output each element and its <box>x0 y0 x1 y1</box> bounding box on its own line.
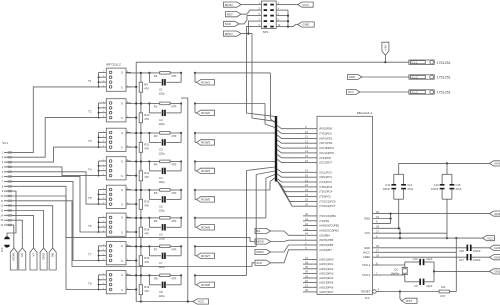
svg-text:47uF: 47uF <box>407 187 413 191</box>
svg-text:R8: R8 <box>154 276 158 280</box>
svg-text:SV1: SV1 <box>2 141 8 145</box>
svg-text:(ADC1)PA1: (ADC1)PA1 <box>319 262 334 266</box>
svg-text:C12: C12 <box>385 183 390 187</box>
svg-text:SCK: SCK <box>225 22 232 26</box>
svg-text:120p: 120p <box>159 122 166 126</box>
flag ROW7 <box>197 253 215 258</box>
svg-text:(RXD)PD0: (RXD)PD0 <box>319 127 332 131</box>
svg-text:AREF: AREF <box>363 255 371 259</box>
svg-text:T1: T1 <box>88 79 92 83</box>
wire SV1 pin 7 to T7 <box>12 181 99 260</box>
svg-text:1751251: 1751251 <box>436 91 450 95</box>
wire bus to PC pin <box>277 181 303 202</box>
IC IC1 MEGA16-A <box>303 111 400 300</box>
svg-text:47K: 47K <box>144 87 149 91</box>
resistor R8 47R <box>149 274 170 277</box>
svg-text:XTAL1: XTAL1 <box>362 263 371 267</box>
wire SV1 pin 3 to T3 <box>12 147 99 162</box>
svg-text:C14: C14 <box>407 183 412 187</box>
wire T2 source to +5V bus <box>126 117 137 119</box>
wire ROW4 net to MCU bus <box>195 161 275 163</box>
svg-text:R4: R4 <box>154 162 158 166</box>
wire SV1 pin 4 to T4 <box>12 167 99 176</box>
wire T3 source to +5V bus <box>126 146 137 148</box>
capacitor C18 100nF (GND pin row) <box>382 245 490 253</box>
flag SCK (SPI) <box>255 250 303 266</box>
wire T5 gate line <box>126 189 196 191</box>
svg-text:ROW5: ROW5 <box>201 198 210 202</box>
capacitor C2 120p <box>149 104 181 126</box>
svg-text:GND: GND <box>494 255 500 259</box>
flag VCC (ISP header pin 2) <box>286 2 314 7</box>
flag GND (C18) <box>490 245 500 250</box>
svg-text:GND: GND <box>494 270 500 274</box>
svg-text:RESET: RESET <box>361 290 370 294</box>
wire SV1 pin 6 to T6 <box>12 177 99 232</box>
svg-text:G: G <box>121 216 123 220</box>
capacitor C5 120p <box>149 190 181 212</box>
svg-text:47K: 47K <box>144 232 149 236</box>
flag GND (ISP header grounds) <box>298 22 315 27</box>
svg-text:47K: 47K <box>144 175 149 179</box>
wire to ROW2 flag <box>195 104 197 113</box>
svg-text:LA: LA <box>31 253 35 257</box>
resistor R3 47R <box>149 132 170 135</box>
svg-text:XTAL2: XTAL2 <box>362 273 371 277</box>
svg-text:GND: GND <box>494 246 500 250</box>
svg-text:GND: GND <box>41 253 45 261</box>
wire R1 to node <box>170 72 181 74</box>
svg-text:R17: R17 <box>441 294 446 298</box>
wire T7 source to +5V bus <box>126 259 137 261</box>
svg-text:(ADC7)PA7: (ADC7)PA7 <box>319 290 334 294</box>
wire T2 gate line <box>126 102 196 104</box>
flag MOSI (SPI) <box>255 239 303 244</box>
svg-text:AVCC: AVCC <box>363 250 370 254</box>
svg-text:100nF: 100nF <box>473 249 481 253</box>
svg-text:120p: 120p <box>159 208 166 212</box>
svg-text:(T0/XCK)PB0: (T0/XCK)PB0 <box>319 214 336 218</box>
wire XTAL1 net <box>382 262 419 265</box>
wire bus to PD pin <box>277 159 303 162</box>
wire R8 to node <box>170 274 181 276</box>
wire ROW8 net to MCU bus <box>195 167 275 275</box>
svg-text:RST: RST <box>406 299 412 303</box>
svg-text:(SCL)PC0: (SCL)PC0 <box>319 170 332 174</box>
svg-text:120p: 120p <box>159 151 166 155</box>
svg-text:MISO: MISO <box>225 32 234 36</box>
wire R5 to node <box>170 189 181 191</box>
svg-text:(INT0)PD2: (INT0)PD2 <box>319 136 333 140</box>
wire SV1 pin 2 to T2 <box>12 118 99 158</box>
dual MOSFET T6 (IRF7311LZ) <box>88 213 131 236</box>
svg-text:ROW7: ROW7 <box>201 254 210 258</box>
wire SV1 pin 12 to flag <box>12 206 53 248</box>
resistor R4 47R <box>149 160 170 163</box>
svg-text:(ADC2)PA2: (ADC2)PA2 <box>319 267 334 271</box>
resistor R15 47K pull-up <box>139 245 150 276</box>
svg-text:VCC: VCC <box>198 300 205 304</box>
wire T1 gate line <box>126 72 196 74</box>
svg-text:G: G <box>121 273 123 277</box>
svg-text:RST: RST <box>227 12 233 16</box>
svg-text:T2: T2 <box>88 109 92 113</box>
svg-text:(TXD)PD1: (TXD)PD1 <box>319 132 332 136</box>
flag VCC (bottom rail) <box>193 299 209 304</box>
wire R4 to node <box>170 161 181 163</box>
svg-text:(ADC6)PA6: (ADC6)PA6 <box>319 285 334 289</box>
wire T5 source to +5V bus <box>126 203 137 205</box>
flag RD (bottom) <box>49 248 56 270</box>
resistor R1 47R <box>149 72 170 75</box>
flag GND (bottom) <box>40 248 47 270</box>
svg-text:47uF: 47uF <box>456 187 462 191</box>
capacitor C9 22pF <box>414 279 434 289</box>
svg-text:SS: SS <box>20 253 24 257</box>
crystal Q1 16MHz <box>390 265 408 276</box>
svg-text:IRF7311LZ: IRF7311LZ <box>106 63 121 67</box>
wire R6 to node <box>170 217 181 219</box>
svg-text:S: S <box>121 174 123 178</box>
flag ROW6 <box>197 225 215 230</box>
wire bus to PC pin <box>277 181 303 206</box>
flag ROW8 <box>197 282 215 287</box>
svg-text:C18: C18 <box>459 249 464 253</box>
capacitor C10 22pF <box>413 257 434 265</box>
svg-text:GND: GND <box>494 162 500 166</box>
wire ROW5 net to MCU bus <box>195 178 275 190</box>
wire ROW6 net to MCU bus <box>195 175 275 218</box>
svg-text:VCC: VCC <box>487 236 494 240</box>
svg-text:(OC2)PD7: (OC2)PD7 <box>319 161 332 165</box>
svg-text:T8: T8 <box>88 281 92 285</box>
capacitor C4 120p <box>149 162 181 184</box>
svg-text:(T1)PB1: (T1)PB1 <box>319 219 330 223</box>
wire SV1 pin 14 to flag <box>12 215 34 248</box>
wire bus to PD pin <box>277 155 303 158</box>
svg-text:(ICP)PD6: (ICP)PD6 <box>319 156 331 160</box>
wire to ROW1 flag <box>195 73 197 82</box>
svg-text:X1-3: X1-3 <box>411 90 418 94</box>
wire T8 gate line <box>126 274 196 276</box>
wire MISO flag to header pin 7 <box>241 21 252 33</box>
svg-text:MOSI: MOSI <box>256 240 264 244</box>
svg-text:1751251: 1751251 <box>436 61 450 65</box>
wire T8 source to +5V bus <box>126 288 137 290</box>
flag VCC (X1-3) <box>347 90 361 95</box>
resistor R9 47K pull-up <box>139 72 149 105</box>
dual MOSFET T8 (IRF7311LZ) <box>88 271 131 294</box>
svg-text:T5: T5 <box>88 196 92 200</box>
wire to ROW5 flag <box>195 190 197 199</box>
svg-text:S: S <box>121 230 123 234</box>
wire T7 gate line <box>126 245 196 247</box>
wire header pins 4,6,8,10 ground tie <box>286 10 298 28</box>
wire to ROW7 flag <box>195 246 197 255</box>
svg-text:C9: C9 <box>414 284 418 288</box>
flag ROW1 <box>197 80 215 85</box>
svg-text:T4: T4 <box>88 167 92 171</box>
svg-text:47R: 47R <box>171 191 176 195</box>
resistor R12 47K pull-up <box>139 160 150 191</box>
wire MCU GND pins to GND flag <box>390 213 490 224</box>
dual MOSFET T7 (IRF7311LZ) <box>88 242 131 265</box>
svg-text:R6: R6 <box>154 219 158 223</box>
resistor R6 47R <box>149 217 170 220</box>
svg-text:(AIN0/INT2)PB2: (AIN0/INT2)PB2 <box>319 224 339 228</box>
solder jumper SJ1 <box>0 236 10 252</box>
svg-text:47R: 47R <box>171 276 176 280</box>
svg-text:10k: 10k <box>441 285 446 289</box>
connector SV1 (16-pin) <box>0 141 12 227</box>
svg-text:R5: R5 <box>154 191 158 195</box>
svg-text:GND: GND <box>349 75 355 79</box>
wire RESET net <box>382 290 439 292</box>
wire bus to PC pin <box>277 181 303 192</box>
svg-text:(OC1A)PD5: (OC1A)PD5 <box>319 151 334 155</box>
label R5 <box>154 191 177 195</box>
resistor R5 47R <box>149 189 170 192</box>
svg-text:X1-2: X1-2 <box>411 75 418 79</box>
svg-text:VCC: VCC <box>302 3 309 7</box>
wire SV1 pin 1 to T1 <box>12 87 99 152</box>
svg-text:100nF: 100nF <box>473 258 481 262</box>
svg-text:GND: GND <box>302 23 310 27</box>
wire T1 source to +5V bus <box>126 86 137 88</box>
svg-text:G: G <box>121 188 123 192</box>
resistor R13 47K pull-up <box>139 189 150 219</box>
wire SV1 pin 5 to T5 <box>12 172 99 204</box>
svg-text:47R: 47R <box>171 74 176 78</box>
svg-text:G: G <box>121 131 123 135</box>
svg-text:(ADC5)PA5: (ADC5)PA5 <box>319 281 334 285</box>
svg-text:(TDI)PC5: (TDI)PC5 <box>319 195 331 199</box>
svg-text:47K: 47K <box>144 289 149 293</box>
svg-text:100nF: 100nF <box>431 187 439 191</box>
flag GND (crystal) <box>490 269 500 274</box>
svg-text:+5V: +5V <box>384 44 388 51</box>
svg-text:SCK: SCK <box>256 261 262 265</box>
flag GND (MCU gnd pins) <box>490 211 500 216</box>
svg-text:MOSI: MOSI <box>225 3 233 7</box>
wire bus to PD pin <box>277 150 303 153</box>
capacitor C1 120p <box>149 73 181 95</box>
capacitor C8 120p <box>149 275 181 297</box>
svg-text:T7: T7 <box>88 252 92 256</box>
flag MOSI (to ISP header) <box>224 2 242 7</box>
wire left +5V bus vertical <box>135 62 137 301</box>
svg-text:GND: GND <box>494 212 500 216</box>
capacitor C17 100nF (AREF) <box>382 254 490 262</box>
wire bus to PC pin <box>277 181 303 197</box>
svg-text:C17: C17 <box>459 258 464 262</box>
svg-text:120p: 120p <box>159 294 166 298</box>
wire bus to PC pin <box>277 169 303 172</box>
wire T4 source to +5V bus <box>126 175 137 177</box>
svg-text:R1: R1 <box>154 74 158 78</box>
wire T6 gate line <box>126 217 196 219</box>
svg-text:ROW1: ROW1 <box>201 81 210 85</box>
wire ROW1 net to MCU bus <box>195 73 275 123</box>
svg-text:22pF: 22pF <box>426 284 432 288</box>
svg-text:47K: 47K <box>144 204 149 208</box>
svg-text:VCC: VCC <box>364 231 370 235</box>
wire R3 to node <box>170 132 181 134</box>
svg-text:G: G <box>121 159 123 163</box>
svg-text:(OC1B)PD4: (OC1B)PD4 <box>319 146 334 150</box>
label R7 <box>154 247 177 251</box>
wire ROW7 net to MCU bus <box>195 171 275 246</box>
svg-text:(TOSC1)PC6: (TOSC1)PC6 <box>319 199 336 203</box>
svg-text:22pF: 22pF <box>426 257 432 261</box>
wire SV1 pin 10 (MOSI net) across <box>12 196 255 242</box>
svg-text:(SDA)PC1: (SDA)PC1 <box>319 175 332 179</box>
wire bus to PC pin <box>277 174 303 177</box>
svg-text:Q1: Q1 <box>394 268 398 272</box>
wire to ROW3 flag <box>195 133 197 142</box>
svg-text:47K: 47K <box>144 260 149 264</box>
svg-text:S: S <box>121 85 123 89</box>
flag MOSI (bottom) <box>10 248 17 270</box>
svg-text:C10: C10 <box>413 257 418 261</box>
wire T4 gate line <box>126 160 196 162</box>
label R3 <box>154 134 177 138</box>
wire top GND rail (caps) <box>399 162 490 164</box>
wire bus to PD pin <box>277 140 303 143</box>
wire SCK flag to header pin 5, tee down to bus <box>239 16 252 24</box>
svg-text:16MHz: 16MHz <box>390 272 399 276</box>
svg-text:S: S <box>121 116 123 120</box>
flag MISO (SPI) <box>255 245 303 255</box>
svg-text:T3: T3 <box>88 139 92 143</box>
wire bus to PC pin <box>277 179 303 182</box>
svg-text:(SS)PB4: (SS)PB4 <box>319 233 330 237</box>
svg-text:(ADC3)PA3: (ADC3)PA3 <box>319 271 334 275</box>
svg-text:G: G <box>121 71 123 75</box>
capacitor C13 100nF / C15 47uF <box>431 163 462 239</box>
svg-text:R7: R7 <box>154 247 158 251</box>
svg-text:(SCK)PB7: (SCK)PB7 <box>319 248 332 252</box>
wire to ROW6 flag <box>195 218 197 227</box>
flag LA (bottom) <box>30 248 37 270</box>
resistor R2 47R <box>149 102 170 105</box>
svg-text:ROW3: ROW3 <box>201 141 210 145</box>
wire bus to PD pin <box>277 130 303 133</box>
wire R2 to node <box>170 103 181 105</box>
resistor R10 47K pull-up <box>139 102 150 134</box>
svg-text:47R: 47R <box>171 247 176 251</box>
wire SV1 pin 11 (SCK net) across <box>12 201 255 267</box>
terminal X1-3 <box>409 90 451 95</box>
flag RST (to ISP header) <box>226 12 242 17</box>
svg-text:ROW2: ROW2 <box>201 111 210 115</box>
svg-text:(TCK)PC2: (TCK)PC2 <box>319 180 332 184</box>
svg-text:MOSI: MOSI <box>12 253 16 261</box>
dual MOSFET T1 (IRF7311LZ) <box>88 63 131 92</box>
dual MOSFET T2 (IRF7311LZ) <box>88 99 131 122</box>
svg-text:47R: 47R <box>171 162 176 166</box>
dual MOSFET T3 (IRF7311LZ) <box>88 128 131 151</box>
svg-text:120p: 120p <box>159 180 166 184</box>
wire VCC to X1-3 <box>360 91 409 93</box>
wire crystal caps to GND <box>433 262 490 282</box>
svg-text:(ADC0)PA0: (ADC0)PA0 <box>319 258 334 262</box>
svg-text:G: G <box>121 101 123 105</box>
wire SV1 pin 8 to T8 <box>12 186 99 289</box>
dual MOSFET T5 (IRF7311LZ) <box>88 185 131 208</box>
svg-text:47K: 47K <box>144 117 149 121</box>
supply flag +5V <box>382 42 389 62</box>
svg-text:MEGA16-A: MEGA16-A <box>357 111 374 115</box>
svg-text:120p: 120p <box>159 236 166 240</box>
svg-text:G: G <box>121 244 123 248</box>
wire XTAL2 net <box>382 275 419 282</box>
svg-text:GND: GND <box>364 217 370 221</box>
flag GND (C17) <box>490 255 500 260</box>
resistor R7 47R <box>149 245 170 248</box>
wire ROW3 net to MCU bus <box>195 132 275 134</box>
wire MISO net down to signal bus <box>247 33 274 122</box>
dual MOSFET T4 (IRF7311LZ) <box>88 157 131 180</box>
svg-text:C15: C15 <box>456 183 461 187</box>
label R8 <box>154 276 177 280</box>
flag ROW5 <box>197 197 215 202</box>
svg-text:X1-1: X1-1 <box>411 61 418 65</box>
wire ROW2 net to MCU bus <box>195 104 275 128</box>
svg-text:SJ1: SJ1 <box>0 248 4 253</box>
svg-text:SP1: SP1 <box>263 30 269 34</box>
wire header pin 9 down to signal bus <box>247 27 275 117</box>
svg-text:(INT1)PD3: (INT1)PD3 <box>319 141 333 145</box>
svg-text:47R: 47R <box>171 104 176 108</box>
svg-text:47R: 47R <box>171 219 176 223</box>
wire SV1 pin 15 to flag <box>12 220 22 248</box>
flag MISO (to ISP header) <box>224 31 242 36</box>
flag RST (reset) <box>400 292 417 304</box>
wire to ROW4 flag <box>195 162 197 171</box>
svg-text:MISO: MISO <box>256 250 264 254</box>
wire R7 to node <box>170 245 181 247</box>
wire SV1 pin 9 to solder jumper SJ1 <box>7 191 16 238</box>
wire bottom VCC rail <box>136 300 193 302</box>
svg-text:R3: R3 <box>154 134 158 138</box>
svg-text:(MOSI)PB5: (MOSI)PB5 <box>319 238 334 242</box>
svg-text:120p: 120p <box>159 91 166 95</box>
wire bus to PD pin <box>277 125 303 128</box>
wire bus to PD pin <box>277 145 303 148</box>
svg-text:1751251: 1751251 <box>436 76 450 80</box>
label R6 <box>154 219 177 223</box>
flag GND (cap rail) <box>490 161 500 166</box>
svg-text:ROW4: ROW4 <box>201 169 210 173</box>
wire GND to X1-2 <box>362 76 409 78</box>
svg-text:S: S <box>121 145 123 149</box>
svg-text:(TOSC2)PC7: (TOSC2)PC7 <box>319 204 336 208</box>
svg-text:ROW8: ROW8 <box>201 283 210 287</box>
svg-text:(MISO)PB6: (MISO)PB6 <box>319 243 334 247</box>
label R2 <box>154 104 177 108</box>
wire bus to PD pin <box>277 135 303 138</box>
terminal X1-2 <box>409 75 451 80</box>
flag GND (X1-2) <box>348 75 363 80</box>
svg-text:(AIN1/OC0)PB3: (AIN1/OC0)PB3 <box>319 229 339 233</box>
svg-text:(ADC4)PA4: (ADC4)PA4 <box>319 276 334 280</box>
wire T6 source to +5V bus <box>126 231 137 233</box>
flag ROW2 <box>197 110 215 115</box>
svg-text:T6: T6 <box>88 224 92 228</box>
bus bar to MCU <box>275 116 277 182</box>
terminal X1-1 <box>409 60 451 65</box>
